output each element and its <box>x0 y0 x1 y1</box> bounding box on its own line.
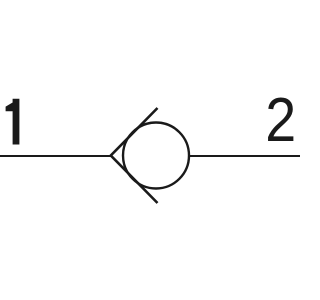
check valve seat (V tangent lines) <box>111 108 158 203</box>
svg-text:2: 2 <box>265 84 296 155</box>
wire port 2 (right horizontal line) <box>189 155 300 157</box>
port label 2 <box>265 84 296 155</box>
check valve ball (circle) <box>123 123 189 189</box>
port label 1 <box>6 99 20 145</box>
wire port 1 (left horizontal line) <box>0 155 111 157</box>
